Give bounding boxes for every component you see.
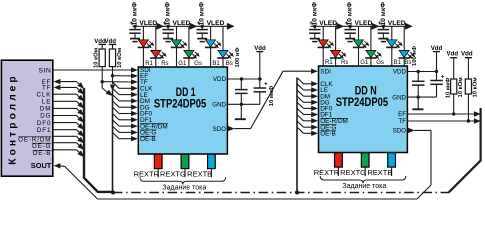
svg-text:Задание тока: Задание тока <box>342 183 386 190</box>
wire Vdd supply DD1 <box>259 52 261 79</box>
wire bus to DDN pin 2 <box>297 90 304 96</box>
wire bus to DDN pin 7 <box>297 121 304 127</box>
svg-text:Rs: Rs <box>161 61 168 67</box>
wire DDN TF to trunk <box>407 120 474 122</box>
arrow into controller SOUT <box>54 163 61 168</box>
svg-text:VLED: VLED <box>319 20 337 27</box>
wire DDN VDD <box>407 71 437 73</box>
resistor R3 10k EF pullup <box>453 58 455 79</box>
wire Vdd supply DDN <box>436 52 438 72</box>
svg-text:100 нФ: 100 нФ <box>235 47 241 67</box>
svg-text:EF: EF <box>398 111 406 118</box>
svg-text:VDD: VDD <box>213 76 227 83</box>
wire SDO return right <box>430 130 432 185</box>
controller block <box>1 60 52 176</box>
svg-text:GND: GND <box>392 94 406 101</box>
LED blue1 DD1 <box>210 26 212 40</box>
brace DD1 <box>140 177 226 184</box>
wire controller signal 6 to bus trunk <box>53 122 76 124</box>
svg-text:10 кОм: 10 кОм <box>94 48 100 68</box>
wire TF join trunk <box>101 82 103 88</box>
wire controller signal 9 to bus trunk <box>53 142 76 144</box>
svg-text:VLED: VLED <box>388 20 406 27</box>
LED greens DD1 <box>188 26 190 50</box>
svg-text:B1: B1 <box>394 60 402 66</box>
wire bus to DDN pin 5 <box>297 108 304 114</box>
wire bus to DD1 pin 6 <box>113 120 120 126</box>
wire bus to DDN pin 3 <box>297 96 304 102</box>
resistor REXTG DDN <box>361 153 369 167</box>
VLED arrow red DD1 <box>157 23 165 30</box>
capacitor C3 100nF DDN <box>417 72 419 81</box>
resistor REXTR DD1 <box>154 154 162 168</box>
svg-text:G1: G1 <box>360 60 369 66</box>
svg-text:10 мкФ: 10 мкФ <box>269 86 275 107</box>
wire DD1 VDD <box>227 78 262 80</box>
svg-text:10 мкФ: 10 мкФ <box>311 2 318 26</box>
wire bus to DD1 pin 0 <box>113 82 120 88</box>
capacitor 10uF VLED green DDN <box>348 25 351 28</box>
IC DDN STP24DP05 <box>319 66 408 153</box>
VLED arrow red DDN <box>336 23 344 30</box>
wire controller signal 8 to bus trunk <box>53 135 76 137</box>
LED reds DDN <box>335 26 337 50</box>
wire DD1 GND <box>227 103 259 105</box>
LED greens DDN <box>370 26 372 50</box>
svg-text:OE-B: OE-B <box>33 150 52 157</box>
wire bus to DD1 pin 1 <box>113 88 120 94</box>
svg-text:VLED: VLED <box>139 20 157 27</box>
svg-text:10 мкФ: 10 мкФ <box>131 2 138 26</box>
svg-text:REXTG: REXTG <box>160 169 186 178</box>
svg-text:OE-B: OE-B <box>140 136 156 143</box>
svg-text:Bs: Bs <box>226 61 233 67</box>
svg-text:10 кОм: 10 кОм <box>473 77 479 97</box>
resistor REXTB DDN <box>388 153 396 167</box>
LED green1 DD1 <box>176 26 178 40</box>
capacitor C1 100nF DD1 <box>240 79 242 89</box>
wire controller signal 2 to bus trunk <box>53 93 76 95</box>
bus trunk DD1 <box>112 90 114 193</box>
node GND cap1 <box>240 103 243 106</box>
wire bus to DD1 pin 3 <box>113 101 120 107</box>
wire bus to DD1 pin 7 <box>113 126 120 132</box>
svg-text:OE-G: OE-G <box>32 143 51 150</box>
capacitor 10uF VLED blue DD1 <box>201 25 204 28</box>
wire DDN GND <box>407 96 436 98</box>
svg-text:10 мкФ: 10 мкФ <box>199 2 206 26</box>
wire controller signal 4 to bus trunk <box>53 107 76 109</box>
svg-text:CLK: CLK <box>37 91 52 98</box>
wire DD1 SDO to DDN SDI <box>228 126 235 131</box>
svg-text:STP24DP05: STP24DP05 <box>154 97 207 111</box>
VLED arrow green DDN <box>372 23 380 30</box>
node TF right pullup <box>467 119 470 122</box>
capacitor 10uF VLED red DDN <box>313 25 316 28</box>
svg-text:REXTR: REXTR <box>134 169 160 178</box>
node bus DDN trunk <box>295 191 299 195</box>
wire controller signal 10 to bus trunk <box>53 149 76 151</box>
bus trunk DDN <box>296 78 298 193</box>
wire controller signal 7 to bus trunk <box>53 129 76 131</box>
LED red1 DD1 <box>142 26 144 40</box>
svg-text:Vdd: Vdd <box>447 50 459 57</box>
wire DDN SDO out <box>408 128 415 133</box>
node VDD cap1 <box>240 77 243 80</box>
Vdd tap bar left 1 <box>98 43 106 45</box>
Vdd tap bar DD1 <box>256 51 263 53</box>
svg-text:R1: R1 <box>145 61 153 67</box>
bus trunk left <box>84 88 113 192</box>
svg-text:Задание тока: Задание тока <box>162 184 206 191</box>
wire bus to DDN pin 0 <box>297 78 304 84</box>
svg-text:Gs: Gs <box>376 60 384 66</box>
svg-text:SOUT: SOUT <box>31 161 52 170</box>
capacitor 10uF VLED green DD1 <box>166 25 169 28</box>
node EF right pullup <box>452 112 455 115</box>
LED reds DD1 <box>155 26 157 50</box>
bus chain line <box>113 192 449 194</box>
wire bus to DD1 pin 4 <box>113 107 120 113</box>
resistor REXTR DDN <box>335 153 343 167</box>
wire TF to DD1 <box>102 81 131 83</box>
svg-text:REXTR: REXTR <box>314 168 340 177</box>
wire bus to DDN pin 6 <box>297 115 304 121</box>
svg-text:100 нФ: 100 нФ <box>412 46 418 66</box>
svg-text:REXTB: REXTB <box>367 168 392 177</box>
LED blues DD1 <box>222 26 224 50</box>
resistor R2 10k EF pullup <box>112 44 114 49</box>
IC DD1 STP24DP05 <box>138 67 227 154</box>
LED green1 DDN <box>358 26 360 40</box>
wire bus to DD1 pin 2 <box>113 95 120 101</box>
svg-text:10 мкФ: 10 мкФ <box>347 2 354 26</box>
svg-text:GND: GND <box>212 102 226 109</box>
VLED arrow green DD1 <box>190 23 198 30</box>
svg-text:REXTG: REXTG <box>340 168 366 177</box>
wire DDN EF to trunk <box>407 113 474 115</box>
wire bus to DD1 pin 5 <box>113 114 120 120</box>
svg-text:DM: DM <box>40 106 51 113</box>
svg-text:10 мкФ: 10 мкФ <box>165 2 172 26</box>
svg-text:STP24DP05: STP24DP05 <box>336 95 389 109</box>
svg-text:Gs: Gs <box>194 61 202 67</box>
wire bus to DDN pin 1 <box>297 84 304 90</box>
svg-text:G1: G1 <box>178 61 187 67</box>
bus trunk right <box>449 108 481 192</box>
Vdd tap bar right 2 <box>465 57 472 59</box>
wire controller signal 1 to bus trunk <box>60 86 76 88</box>
svg-text:Vdd: Vdd <box>461 50 473 57</box>
svg-text:VDD: VDD <box>393 69 407 76</box>
svg-text:10 кОм: 10 кОм <box>117 48 123 68</box>
ground DDN <box>417 97 419 109</box>
wire controller signal 5 to bus trunk <box>53 115 76 117</box>
LED blue1 DDN <box>391 26 393 40</box>
capacitor C2 10uF DD1 <box>259 79 261 88</box>
node bus DD1 trunk <box>111 191 115 195</box>
wire SDO return bottom <box>98 198 418 200</box>
LED red1 DDN <box>322 26 324 40</box>
resistor REXTG DD1 <box>181 154 189 168</box>
wire controller signal 0 to bus trunk <box>60 81 76 83</box>
arrow into controller EF <box>54 79 61 84</box>
svg-text:VLED: VLED <box>173 20 191 27</box>
wire bus to DD1 pin 8 <box>113 132 120 138</box>
LED blues DDN <box>403 26 405 50</box>
svg-text:LE: LE <box>42 99 51 106</box>
resistor R4 10k TF pullup <box>467 58 469 79</box>
svg-text:SDI: SDI <box>320 68 331 75</box>
resistor REXTB DD1 <box>208 154 216 168</box>
VLED rail DDN <box>311 25 407 27</box>
ground DD1 <box>240 104 242 118</box>
svg-text:SDO: SDO <box>213 126 227 133</box>
wire EF to DD1 <box>113 75 132 77</box>
svg-text:DF0: DF0 <box>37 120 51 127</box>
svg-text:SIN: SIN <box>38 68 51 75</box>
node VDD cap2 <box>258 77 261 80</box>
svg-text:REXTB: REXTB <box>187 169 212 178</box>
VLED arrow blue DDN <box>405 23 413 30</box>
svg-text:VLED: VLED <box>355 20 373 27</box>
node EF pullup <box>111 74 114 77</box>
Vdd tap bar DDN <box>433 51 440 53</box>
node DDN VDD cap1 <box>417 70 420 73</box>
capacitor C4 10uF DDN <box>436 72 438 81</box>
node DDN GND cap1 <box>417 95 420 98</box>
svg-text:DG: DG <box>40 113 51 120</box>
svg-text:SDO: SDO <box>393 128 407 135</box>
node TF pullup <box>101 80 104 83</box>
VLED arrow blue DD1 <box>227 23 235 30</box>
wire SDO return to SOUT <box>65 166 98 199</box>
wire EF join trunk <box>112 76 114 84</box>
svg-text:10 мкФ: 10 мкФ <box>380 2 387 26</box>
svg-text:Bs: Bs <box>404 60 411 66</box>
VLED rail DD1 <box>133 25 229 27</box>
wire SIN to DD1 SDI <box>53 69 132 71</box>
svg-text:R1: R1 <box>325 60 333 66</box>
svg-text:DF1: DF1 <box>37 127 51 134</box>
svg-text:B1: B1 <box>212 61 220 67</box>
capacitor 10uF VLED red DD1 <box>133 25 136 28</box>
svg-text:VLED: VLED <box>207 20 225 27</box>
wire bus to DDN pin 4 <box>297 102 304 108</box>
resistor R1 10k TF pullup <box>101 44 103 49</box>
wire bus to DDN pin 8 <box>297 127 304 133</box>
svg-text:OE-B: OE-B <box>320 131 336 138</box>
capacitor 10uF VLED blue DDN <box>382 25 385 28</box>
svg-text:Rs: Rs <box>341 60 348 66</box>
brace DDN <box>320 176 406 183</box>
svg-text:10 кОм: 10 кОм <box>458 77 464 97</box>
svg-text:Контроллер: Контроллер <box>7 73 18 164</box>
Vdd tap bar right 1 <box>450 57 457 59</box>
Vdd tap bar left 2 <box>109 43 117 45</box>
node DDN VDD cap2 <box>435 70 438 73</box>
arrow into controller TF <box>54 85 61 90</box>
svg-text:TF: TF <box>398 118 406 125</box>
wire controller signal 3 to bus trunk <box>53 100 76 102</box>
